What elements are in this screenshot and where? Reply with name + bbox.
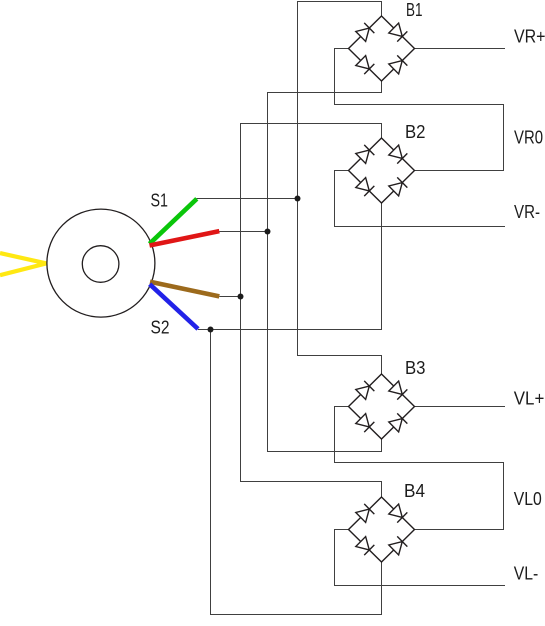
svg-text:B3: B3 <box>405 358 426 378</box>
wire S2 to B2 bottom <box>211 203 382 330</box>
node brown junction <box>238 294 244 300</box>
wire VL- output: B4 left <box>335 530 506 586</box>
svg-text:VL-: VL- <box>514 564 539 584</box>
bridge rectifier B4 <box>349 497 415 562</box>
node red junction <box>265 229 271 235</box>
wire brown stub to node <box>219 296 240 298</box>
secondary wire red <box>150 231 220 245</box>
wire S2 to B4 bottom <box>211 330 382 615</box>
secondary wire brown <box>150 282 219 297</box>
svg-text:S1: S1 <box>151 191 169 211</box>
wire red bus: B1 bottom to B3 bottom <box>268 81 382 452</box>
secondary wire green S1 <box>150 199 197 244</box>
transformer T1 toroid core inner <box>82 246 119 283</box>
wire VL+ output <box>415 406 506 408</box>
primary winding yellow wire lower <box>0 263 47 275</box>
wire VR- output: B2 left <box>335 171 506 227</box>
wire VR+ output <box>415 48 506 50</box>
wire red stub to node <box>219 231 267 233</box>
wire brown bus: B2 top to B4 top <box>241 124 382 498</box>
bridge rectifier B3 <box>349 374 415 439</box>
wire VR0 rail: B1 left to B2 right <box>335 49 504 171</box>
svg-text:VR+: VR+ <box>514 26 545 46</box>
svg-text:B2: B2 <box>405 122 426 142</box>
svg-text:VL0: VL0 <box>514 489 542 509</box>
svg-text:VR-: VR- <box>514 202 540 222</box>
wire S1 green bus: B1 top to B3 top <box>298 2 382 375</box>
svg-text:B1: B1 <box>406 0 423 20</box>
primary winding yellow wire upper <box>0 253 47 263</box>
bridge rectifier B1 <box>349 16 415 81</box>
node S2 junction <box>208 327 214 333</box>
wire VL0 rail: B3 left to B4 right <box>335 407 504 530</box>
svg-text:VL+: VL+ <box>514 388 545 408</box>
bridge rectifier B2 <box>349 138 415 203</box>
secondary wire blue S2 <box>150 284 198 329</box>
svg-text:S2: S2 <box>151 318 170 338</box>
svg-text:VR0: VR0 <box>514 127 543 147</box>
wire S1 stub to node <box>197 198 298 200</box>
wire S2 stub to node <box>198 329 211 331</box>
svg-text:B4: B4 <box>404 481 425 501</box>
node S1 junction <box>295 196 301 202</box>
transformer T1 toroid core outer <box>47 209 155 317</box>
